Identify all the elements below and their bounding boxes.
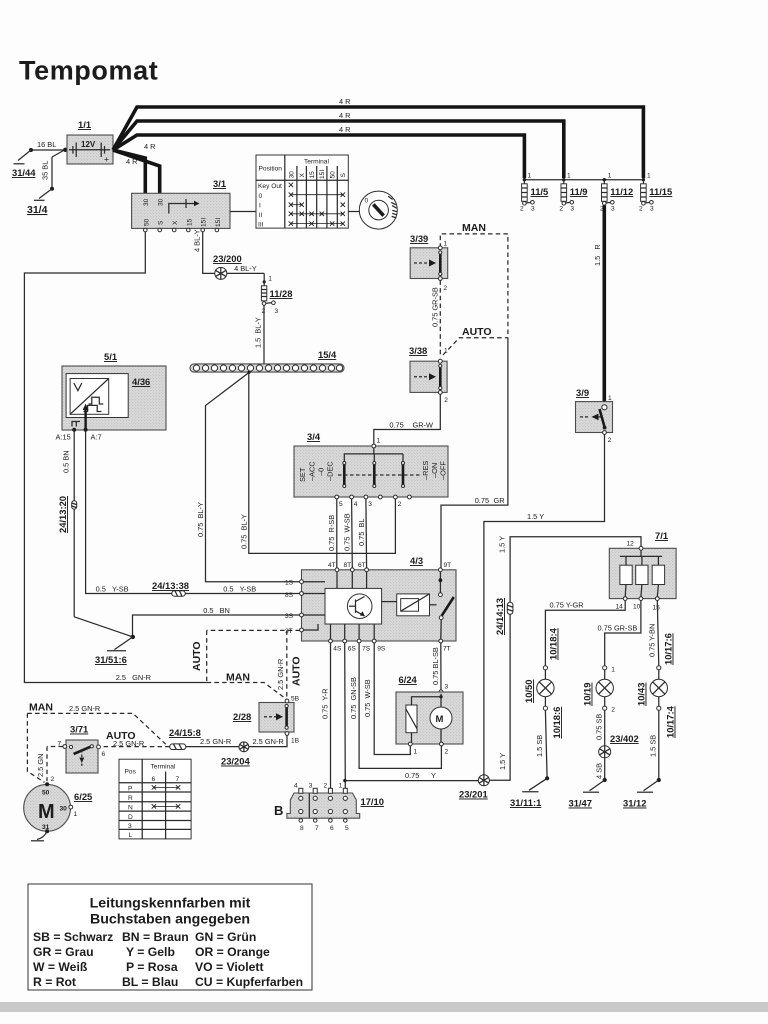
fuse 11/15 (639, 180, 672, 213)
svg-text:2: 2 (559, 206, 563, 213)
svg-text:1.5 R: 1.5 R (593, 244, 602, 266)
MAN dashed to 2/28 5B (207, 672, 287, 700)
splice 23/402 (599, 733, 639, 758)
fuse 11/9 (559, 180, 587, 213)
svg-text:2/28: 2/28 (233, 711, 251, 722)
svg-text:1.5 SB: 1.5 SB (649, 735, 658, 757)
svg-text:1.5 Y: 1.5 Y (498, 753, 507, 770)
wire 4R to 3/1 pin30 a (113, 142, 156, 195)
svg-text:6: 6 (102, 751, 106, 758)
wire 0.75 W-SB 3/4-4 to 8T (343, 499, 353, 568)
svg-text:23/204: 23/204 (221, 756, 250, 767)
svg-text:2.5 GN-R: 2.5 GN-R (200, 737, 231, 746)
svg-text:Y: Y (431, 771, 436, 780)
svg-text:7: 7 (176, 776, 180, 783)
svg-text:1.5 Y: 1.5 Y (498, 536, 507, 553)
svg-text:31/4: 31/4 (27, 204, 48, 216)
svg-text:VO = Violett: VO = Violett (195, 960, 264, 974)
lamp 10/50 (523, 627, 562, 738)
svg-text:0.75 Y-GR: 0.75 Y-GR (550, 601, 584, 610)
svg-text:1: 1 (608, 395, 612, 402)
wire 1.5 SB 10/50 to ground (535, 710, 547, 778)
svg-text:6/24: 6/24 (399, 674, 418, 685)
wire 4 BL-Y from 3/1 pin 15I (193, 229, 265, 273)
svg-text:GR: GR (494, 496, 505, 505)
control switch 3/4 (294, 431, 448, 508)
svg-text:0.75 GR-SB: 0.75 GR-SB (598, 624, 638, 633)
svg-text:15I: 15I (319, 170, 326, 179)
AUTO dashed 3T link (191, 630, 300, 682)
svg-text:0.5 Y-SB: 0.5 Y-SB (223, 584, 256, 593)
svg-text:A:15: A:15 (56, 433, 71, 442)
svg-text:–OFF: –OFF (439, 461, 448, 480)
motor 6/25 (24, 782, 93, 841)
svg-text:0.75 GN-SB: 0.75 GN-SB (349, 677, 358, 719)
wire 1.5 R 11/12 to 3/9 (593, 205, 604, 406)
svg-text:4: 4 (354, 501, 358, 508)
svg-text:2: 2 (608, 437, 612, 444)
splice 23/200 (213, 253, 242, 279)
svg-text:N: N (128, 805, 133, 812)
connector strip 15/4 (190, 349, 344, 372)
svg-text:S: S (340, 173, 347, 178)
wire 0.75 BL 3/4-3 to 6T (357, 499, 367, 568)
svg-text:15I: 15I (201, 218, 208, 227)
svg-text:9S: 9S (377, 646, 386, 653)
wire 0.75 Y-R 4S to 17/10 pin2 (321, 643, 331, 788)
svg-text:17/10: 17/10 (361, 796, 384, 807)
svg-text:Terminal: Terminal (151, 764, 176, 771)
svg-text:2.5 GN-R: 2.5 GN-R (116, 673, 151, 682)
svg-text:AUTO: AUTO (291, 656, 303, 686)
svg-text:3/71: 3/71 (70, 724, 88, 735)
svg-text:23/402: 23/402 (610, 733, 639, 744)
svg-text:2.5 GN-R: 2.5 GN-R (276, 659, 285, 690)
svg-text:1: 1 (567, 173, 571, 180)
battery 1/1 (67, 119, 113, 164)
wire 0.75 Y-GR pin14 to 10/50 (545, 601, 625, 666)
svg-text:3/38: 3/38 (409, 345, 427, 356)
svg-text:10/17:4: 10/17:4 (665, 705, 676, 738)
svg-text:GR-W: GR-W (413, 420, 434, 429)
svg-text:31/51:6: 31/51:6 (95, 654, 127, 665)
svg-text:1: 1 (444, 241, 448, 248)
wire 0.75 BL-Y 15/4 to 1S (196, 371, 301, 582)
svg-text:15/4: 15/4 (318, 349, 337, 360)
svg-text:6: 6 (152, 776, 156, 783)
wire 0.75 R-SB 3/4-5 to 4T (327, 499, 337, 568)
svg-text:3: 3 (275, 308, 279, 315)
svg-text:Position: Position (259, 166, 283, 173)
svg-text:11/28: 11/28 (270, 288, 293, 299)
svg-text:3/4: 3/4 (307, 431, 321, 442)
wire 0.75 BL-SB 7T to 6/24 (431, 643, 449, 694)
svg-text:11/12: 11/12 (610, 186, 633, 197)
wire 0.5 BN 3S (133, 606, 302, 637)
svg-text:3: 3 (445, 684, 449, 691)
svg-text:8S: 8S (285, 592, 294, 599)
svg-text:11/5: 11/5 (531, 186, 549, 197)
svg-text:2: 2 (51, 776, 55, 783)
svg-text:1: 1 (611, 667, 615, 674)
svg-text:AUTO: AUTO (191, 641, 203, 671)
svg-text:X: X (299, 173, 306, 178)
ground 31/11:1 (510, 776, 549, 808)
svg-text:P = Rosa: P = Rosa (126, 960, 178, 974)
svg-text:Key Out: Key Out (258, 183, 282, 190)
svg-text:AUTO: AUTO (462, 326, 492, 338)
svg-text:10/19: 10/19 (582, 683, 593, 706)
wire 4R top2 to 11/9 (113, 111, 564, 178)
splice 24/13:38 (152, 580, 189, 596)
svg-text:Buchstaben angegeben: Buchstaben angegeben (90, 912, 250, 928)
svg-text:3S: 3S (285, 613, 294, 620)
svg-text:4S: 4S (333, 646, 342, 653)
svg-text:24/14:13: 24/14:13 (494, 598, 505, 635)
wire 0.75 GN-SB 6S to 17/10 pin1 (345, 643, 358, 788)
svg-text:16 BL: 16 BL (37, 140, 56, 149)
svg-text:W = Weiß: W = Weiß (33, 960, 88, 974)
wire 2.5 GN-R from 3/1 pin 50 (24, 232, 206, 683)
svg-text:12V: 12V (81, 140, 96, 149)
wire 4R top3 to 11/5 (113, 125, 524, 178)
svg-text:10/43: 10/43 (636, 683, 647, 706)
svg-text:GN = Grün: GN = Grün (195, 930, 256, 944)
svg-text:7/1: 7/1 (655, 530, 668, 541)
svg-text:5: 5 (345, 825, 349, 832)
svg-text:P: P (128, 786, 133, 793)
ignition switch 3/1 (132, 178, 230, 232)
splice 24/14:13 (494, 598, 513, 635)
ground 31/12 (623, 778, 661, 809)
svg-text:Tempomat: Tempomat (19, 56, 158, 86)
wire 2.5 GN-R 1B to 23/204 (249, 735, 288, 746)
svg-text:GR = Grau: GR = Grau (33, 945, 94, 959)
key position table (256, 155, 348, 229)
svg-text:10: 10 (633, 604, 641, 611)
svg-text:24/13:38: 24/13:38 (152, 580, 189, 591)
svg-text:30: 30 (143, 198, 150, 206)
svg-text:3: 3 (570, 206, 574, 213)
svg-text:11/9: 11/9 (570, 186, 588, 197)
svg-text:–DEC: –DEC (326, 461, 335, 481)
svg-text:15: 15 (653, 605, 661, 612)
svg-text:0.75 Y-R: 0.75 Y-R (321, 688, 330, 719)
svg-text:1: 1 (377, 438, 381, 445)
svg-text:5/1: 5/1 (104, 351, 117, 362)
svg-text:6: 6 (330, 825, 334, 832)
svg-text:10/50: 10/50 (523, 680, 534, 703)
svg-text:24/13:20: 24/13:20 (57, 496, 68, 533)
svg-text:1: 1 (414, 749, 418, 756)
wire 0.75 W-SB 7S to 6/24 pin2 (359, 643, 441, 769)
svg-text:12: 12 (627, 541, 635, 548)
svg-text:15I: 15I (215, 218, 222, 227)
svg-text:4 R: 4 R (144, 142, 156, 151)
wire 0.5 Y-SB A:7 to 8S (86, 430, 301, 594)
svg-text:Pos: Pos (125, 769, 137, 776)
svg-text:1: 1 (608, 173, 612, 180)
svg-text:2: 2 (324, 783, 328, 790)
MAN dashed to motor (27, 702, 165, 783)
svg-text:4 R: 4 R (339, 97, 351, 106)
wire 4 SB to ground (595, 758, 605, 780)
wire 4R top1 to 11/15 (113, 97, 643, 178)
svg-text:BL = Blau: BL = Blau (122, 975, 178, 989)
svg-text:3: 3 (128, 823, 132, 830)
svg-text:0.5 BN: 0.5 BN (62, 450, 71, 473)
wire 16 BL (29, 140, 68, 152)
svg-text:0.75 BL: 0.75 BL (357, 518, 366, 546)
svg-text:4 SB: 4 SB (595, 763, 604, 779)
svg-text:2: 2 (639, 206, 643, 213)
svg-text:0.75: 0.75 (405, 771, 419, 780)
svg-text:31/11:1: 31/11:1 (510, 797, 541, 808)
svg-text:SET: SET (298, 467, 307, 482)
svg-text:D: D (128, 814, 133, 821)
svg-text:0.75 Y-BN: 0.75 Y-BN (648, 624, 657, 657)
svg-text:6/25: 6/25 (74, 791, 92, 802)
ground 31/4 (27, 189, 52, 216)
splice 23/204 (221, 742, 250, 767)
svg-text:2.5 GN-R: 2.5 GN-R (113, 739, 144, 748)
svg-text:2: 2 (398, 501, 402, 508)
svg-text:30: 30 (158, 198, 165, 206)
svg-text:4 R: 4 R (339, 111, 351, 120)
svg-text:31/44: 31/44 (12, 167, 36, 178)
svg-text:31/12: 31/12 (623, 798, 646, 809)
svg-text:1: 1 (74, 811, 78, 818)
fuse 11/12 (600, 180, 633, 213)
svg-text:1.5 Y: 1.5 Y (527, 512, 544, 521)
svg-text:50: 50 (42, 790, 50, 797)
svg-text:–RES: –RES (421, 461, 430, 480)
svg-text:OR = Orange: OR = Orange (195, 945, 270, 959)
svg-text:I: I (259, 203, 261, 210)
svg-text:3T: 3T (285, 628, 293, 635)
svg-text:M: M (38, 801, 55, 823)
svg-text:+: + (104, 154, 109, 164)
svg-text:23/201: 23/201 (459, 789, 488, 800)
svg-text:7T: 7T (443, 646, 451, 653)
ground 31/47 (569, 778, 607, 809)
svg-text:8: 8 (300, 825, 304, 832)
svg-text:30: 30 (288, 171, 295, 179)
svg-text:4T: 4T (328, 562, 336, 569)
wire 0.75 GR-W 3/38 to 3/4 pin1 (374, 394, 441, 444)
wire 9S to 6/24 pin1 (374, 643, 410, 755)
connector 17/10 (274, 783, 384, 833)
bus wire pins 1 (523, 173, 651, 182)
svg-text:1S: 1S (285, 580, 294, 587)
svg-text:4: 4 (294, 783, 298, 790)
svg-text:4 BL-Y: 4 BL-Y (234, 264, 257, 273)
svg-text:4/36: 4/36 (132, 376, 150, 387)
svg-text:SB = Schwarz: SB = Schwarz (33, 930, 113, 944)
switch 3/9 (576, 387, 613, 444)
wire 0.5 BN A:15 down (62, 430, 133, 637)
svg-text:II: II (259, 212, 263, 219)
wire 4R to 3/1 pin30 b (113, 150, 160, 195)
svg-text:3: 3 (650, 206, 654, 213)
dashed 2.5 GN-R 3T to 5B (276, 630, 303, 699)
svg-text:7S: 7S (362, 646, 371, 653)
svg-text:1: 1 (528, 173, 532, 180)
svg-text:11/15: 11/15 (649, 186, 672, 197)
svg-text:1.5 BL-Y: 1.5 BL-Y (254, 317, 263, 348)
svg-text:A:7: A:7 (91, 433, 102, 442)
svg-text:3/9: 3/9 (576, 387, 589, 398)
svg-text:1/1: 1/1 (78, 119, 91, 130)
svg-text:2.5 GN-R: 2.5 GN-R (253, 737, 284, 746)
svg-text:2: 2 (443, 285, 447, 292)
svg-text:50: 50 (143, 218, 150, 226)
svg-text:Terminal: Terminal (304, 159, 329, 166)
splice 24/13:20 (57, 496, 77, 533)
svg-text:0.75 BL-SB: 0.75 BL-SB (431, 647, 440, 685)
svg-text:CU = Kupferfarben: CU = Kupferfarben (195, 975, 303, 989)
svg-text:3: 3 (611, 206, 615, 213)
gear position table (119, 759, 191, 839)
svg-text:10/18:6: 10/18:6 (551, 707, 562, 739)
svg-text:50: 50 (330, 171, 337, 179)
svg-text:5: 5 (339, 501, 343, 508)
svg-text:2: 2 (445, 749, 449, 756)
svg-text:0.75: 0.75 (389, 420, 403, 429)
dashed wire 24/15:8 to 3/71 pin 6 (101, 730, 170, 748)
splice 24/15:8 (169, 727, 201, 750)
svg-text:3/1: 3/1 (213, 178, 226, 189)
svg-text:1: 1 (647, 173, 651, 180)
svg-text:5B: 5B (291, 696, 300, 703)
fuse 11/5 (520, 180, 548, 213)
svg-text:0.75 BL-Y: 0.75 BL-Y (196, 502, 205, 537)
svg-text:10/17:6: 10/17:6 (663, 633, 674, 665)
svg-text:–ACC: –ACC (308, 461, 317, 481)
legend box (28, 884, 312, 990)
svg-text:2.5 GN-R: 2.5 GN-R (69, 704, 100, 713)
svg-text:15: 15 (186, 218, 193, 226)
wire 0.75 BL-Y 15/4 to 3/4 pin2 (240, 373, 396, 554)
wire 0.75 GR auto-link to 9T (441, 338, 508, 568)
svg-text:Leitungskennfarben mit: Leitungskennfarben mit (90, 896, 251, 912)
svg-text:0.75 R-SB: 0.75 R-SB (327, 515, 336, 551)
wire 0.75 GR-SB pin10 to 10/19 (598, 601, 641, 666)
wire 1.5 Y 23/201 to 7/1 pin12 (489, 536, 641, 780)
svg-text:M: M (436, 714, 444, 725)
ground 31/51:6 (95, 635, 135, 665)
svg-text:1: 1 (268, 276, 272, 283)
svg-text:7: 7 (315, 825, 319, 832)
wire 2.5 GN-R 23/204 to 24/15:8 (186, 737, 239, 746)
gear switch 3/71 (58, 724, 106, 774)
svg-text:R = Rot: R = Rot (33, 975, 76, 989)
wire 0.75 Y-BN pin15 to 10/43 (648, 601, 674, 666)
MAN dashed link top (440, 222, 508, 338)
AUTO dashed link (443, 326, 508, 355)
svg-text:3: 3 (531, 206, 535, 213)
svg-text:0.75 GR-SB: 0.75 GR-SB (431, 287, 440, 327)
svg-text:1B: 1B (291, 738, 300, 745)
bottom grey band (0, 1002, 768, 1012)
svg-text:4 R: 4 R (126, 157, 138, 166)
svg-text:3: 3 (368, 501, 372, 508)
svg-text:1.5 SB: 1.5 SB (535, 735, 544, 757)
svg-text:4/3: 4/3 (410, 555, 423, 566)
svg-text:X: X (172, 220, 179, 225)
wire 1.5 BL-Y to 15/4 (254, 305, 265, 364)
ground 31/44 (12, 150, 36, 178)
svg-text:2: 2 (444, 397, 448, 404)
svg-text:2.5 GN: 2.5 GN (36, 754, 45, 777)
svg-text:6T: 6T (358, 562, 366, 569)
switch 3/39 (410, 233, 448, 292)
svg-text:30: 30 (60, 806, 68, 813)
key symbol (359, 191, 397, 229)
svg-text:24/15:8: 24/15:8 (169, 727, 201, 738)
svg-text:23/200: 23/200 (213, 253, 242, 264)
wire table to key (348, 211, 359, 213)
svg-text:4 R: 4 R (339, 125, 351, 134)
cruise module 4/3 (285, 555, 456, 653)
svg-text:10/18:4: 10/18:4 (548, 627, 559, 660)
svg-text:14: 14 (616, 604, 624, 611)
svg-text:0.5 BN: 0.5 BN (203, 606, 230, 615)
table X marks (289, 183, 345, 226)
svg-text:4 BL-Y: 4 BL-Y (193, 229, 202, 252)
fuse 11/28 (261, 273, 292, 315)
svg-text:3: 3 (309, 783, 313, 790)
svg-text:0.75: 0.75 (475, 496, 489, 505)
svg-text:2: 2 (520, 206, 524, 213)
lamp 10/19 (582, 666, 616, 714)
svg-text:31/47: 31/47 (569, 798, 592, 809)
svg-text:1: 1 (339, 783, 343, 790)
svg-text:0.75 BL-Y: 0.75 BL-Y (240, 514, 249, 549)
wire 35 BL (41, 151, 64, 191)
svg-text:Y = Gelb: Y = Gelb (126, 945, 175, 959)
switch 3/38 (409, 345, 448, 404)
splice 23/201 (459, 775, 489, 800)
svg-text:15: 15 (309, 171, 316, 179)
svg-text:0.75 SB: 0.75 SB (595, 714, 604, 740)
wire 0.75 Y to splice 23/201 (343, 771, 478, 782)
svg-text:L: L (129, 832, 133, 839)
relay 2/28 (233, 696, 300, 745)
svg-text:0: 0 (365, 198, 369, 205)
svg-text:1: 1 (444, 348, 448, 355)
wire 1.5 Y 3/9 to splice 23/201 (484, 434, 605, 779)
svg-text:MAN: MAN (29, 702, 53, 714)
svg-text:0: 0 (259, 193, 263, 200)
speedometer 5/1 (56, 351, 167, 442)
svg-text:0.5 Y-SB: 0.5 Y-SB (96, 584, 129, 593)
svg-text:BN = Braun: BN = Braun (122, 930, 189, 944)
lamp 10/43 (636, 666, 676, 738)
pump 6/24 (396, 674, 463, 756)
svg-text:B: B (274, 803, 283, 818)
svg-text:3/39: 3/39 (410, 233, 428, 244)
svg-text:6S: 6S (348, 646, 357, 653)
svg-text:0.75 W-SB: 0.75 W-SB (343, 513, 352, 551)
wire 0.75 SB to splice 23/402 (595, 710, 605, 746)
svg-text:2: 2 (611, 707, 615, 714)
svg-text:–0: –0 (317, 468, 326, 476)
svg-text:S: S (158, 220, 165, 225)
svg-text:R: R (128, 795, 133, 802)
wire 1.5 SB 10/43 to ground (649, 710, 659, 780)
svg-text:35 BL: 35 BL (41, 161, 50, 180)
